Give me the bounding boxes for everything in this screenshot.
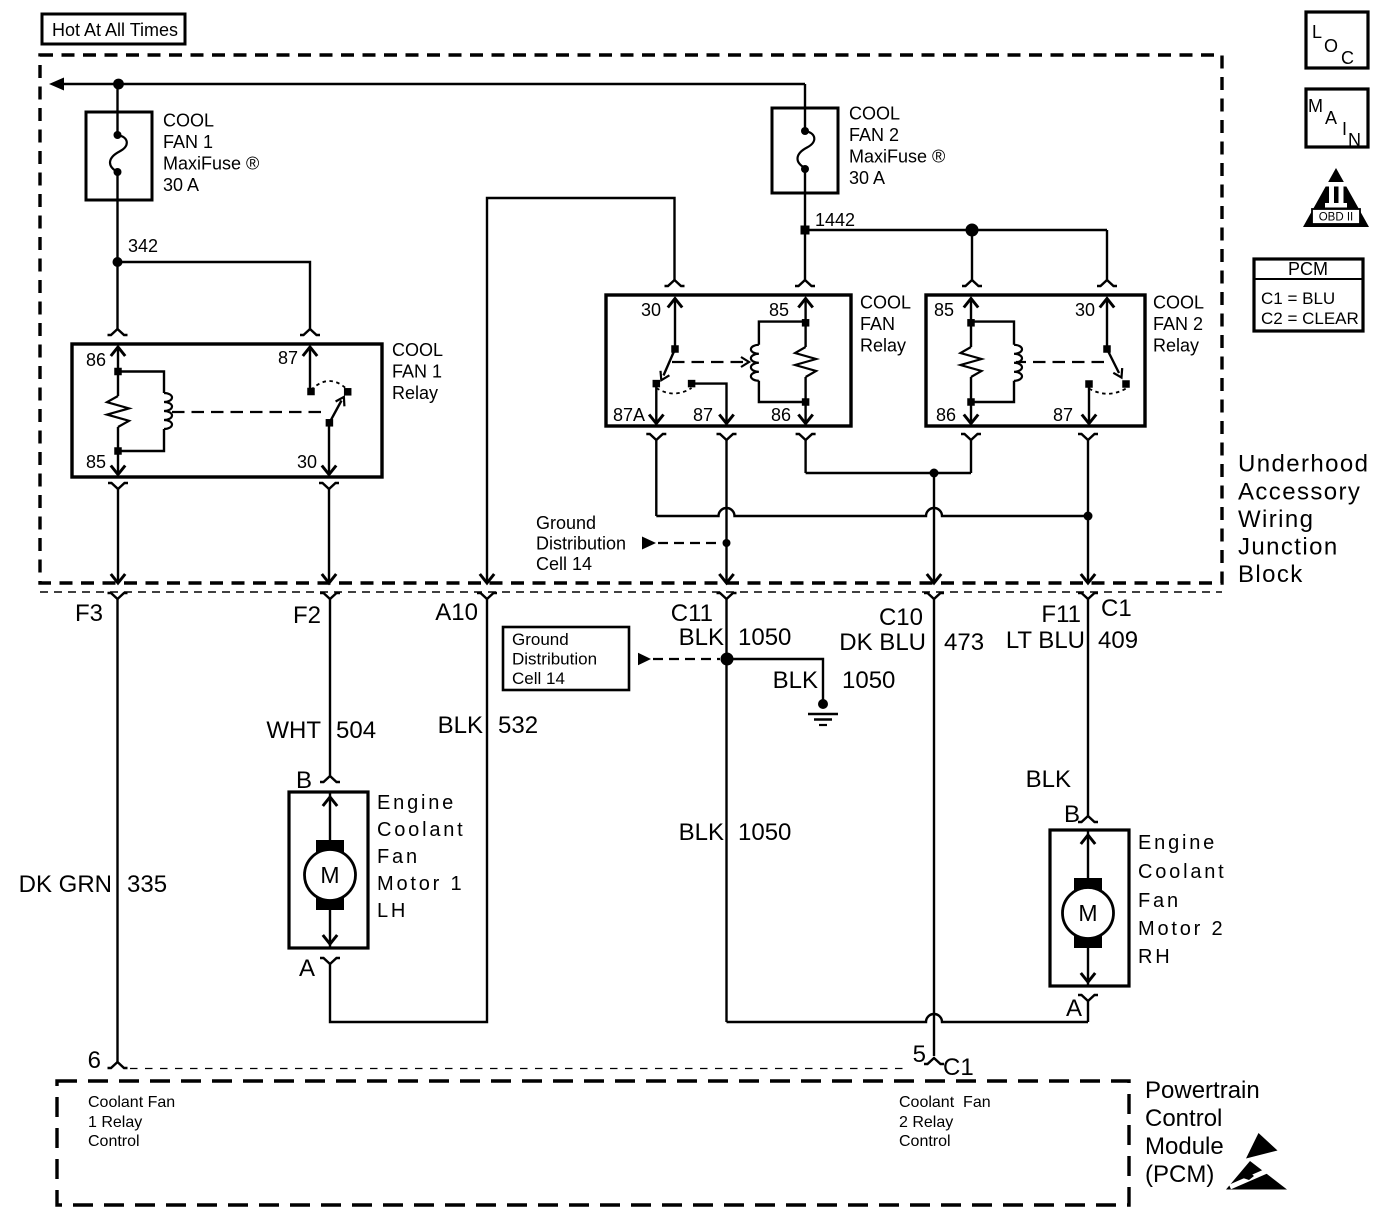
svg-text:30: 30 <box>1075 300 1095 320</box>
svg-text:BLK: BLK <box>773 667 818 694</box>
svg-text:C1 = BLU: C1 = BLU <box>1261 289 1335 308</box>
svg-text:86: 86 <box>936 405 956 425</box>
svg-text:M: M <box>1078 900 1097 926</box>
svg-text:Coolant: Coolant <box>1138 861 1227 883</box>
svg-text:Relay: Relay <box>392 383 438 403</box>
svg-text:FAN: FAN <box>860 314 895 334</box>
svg-text:DK BLU: DK BLU <box>839 629 926 656</box>
svg-text:C: C <box>1341 48 1354 68</box>
svg-text:C10: C10 <box>879 604 923 631</box>
svg-text:532: 532 <box>498 712 538 739</box>
svg-text:Distribution: Distribution <box>536 534 626 554</box>
svg-text:Motor 2: Motor 2 <box>1138 918 1225 940</box>
svg-text:Wiring: Wiring <box>1238 506 1314 533</box>
svg-text:Cell 14: Cell 14 <box>512 669 565 688</box>
svg-text:30 A: 30 A <box>163 175 199 195</box>
svg-text:Underhood: Underhood <box>1238 451 1369 478</box>
svg-text:FAN 2: FAN 2 <box>849 125 899 145</box>
svg-text:COOL: COOL <box>860 293 911 313</box>
svg-text:BLK: BLK <box>679 624 724 651</box>
svg-text:LH: LH <box>377 900 408 922</box>
svg-text:MaxiFuse ®: MaxiFuse ® <box>849 147 945 167</box>
svg-text:473: 473 <box>944 629 984 656</box>
svg-text:Distribution: Distribution <box>512 650 597 669</box>
svg-text:342: 342 <box>128 236 158 256</box>
svg-text:Ground: Ground <box>512 630 569 649</box>
svg-text:1 Relay: 1 Relay <box>88 1114 142 1131</box>
svg-text:Fan: Fan <box>1138 890 1181 912</box>
svg-text:FAN 1: FAN 1 <box>163 132 213 152</box>
svg-text:WHT: WHT <box>266 717 321 744</box>
svg-text:Coolant Fan: Coolant Fan <box>88 1094 175 1111</box>
svg-text:Ground: Ground <box>536 513 596 533</box>
svg-text:LT BLU: LT BLU <box>1006 627 1085 654</box>
svg-text:5: 5 <box>913 1041 926 1068</box>
svg-text:504: 504 <box>336 717 376 744</box>
svg-text:I: I <box>1342 119 1347 139</box>
svg-text:M: M <box>1308 96 1323 116</box>
svg-text:86: 86 <box>86 350 106 370</box>
svg-text:O: O <box>1324 36 1338 56</box>
svg-text:85: 85 <box>934 300 954 320</box>
svg-text:MaxiFuse ®: MaxiFuse ® <box>163 154 259 174</box>
svg-text:Cell 14: Cell 14 <box>536 554 592 574</box>
svg-text:Engine: Engine <box>377 792 456 814</box>
svg-text:F2: F2 <box>293 602 321 629</box>
svg-text:C2 = CLEAR: C2 = CLEAR <box>1261 309 1359 328</box>
svg-text:87: 87 <box>278 348 298 368</box>
svg-text:85: 85 <box>86 452 106 472</box>
svg-text:Fan: Fan <box>377 846 420 868</box>
svg-text:2 Relay: 2 Relay <box>899 1114 953 1131</box>
svg-text:409: 409 <box>1098 627 1138 654</box>
svg-text:A: A <box>1325 108 1337 128</box>
svg-text:A: A <box>299 955 315 982</box>
svg-text:A: A <box>1066 995 1082 1022</box>
svg-text:335: 335 <box>127 871 167 898</box>
svg-text:C1: C1 <box>943 1054 974 1081</box>
svg-text:COOL: COOL <box>1153 293 1204 313</box>
svg-text:30: 30 <box>641 300 661 320</box>
svg-text:Control: Control <box>1145 1105 1222 1132</box>
svg-text:Junction: Junction <box>1238 534 1339 561</box>
svg-text:FAN 1: FAN 1 <box>392 362 442 382</box>
svg-text:1050: 1050 <box>738 624 791 651</box>
svg-text:Control: Control <box>88 1133 140 1150</box>
svg-text:85: 85 <box>769 300 789 320</box>
svg-text:Control: Control <box>899 1133 951 1150</box>
svg-text:C11: C11 <box>671 600 713 627</box>
svg-text:PCM: PCM <box>1288 259 1328 279</box>
svg-text:1442: 1442 <box>815 210 855 230</box>
svg-text:C1: C1 <box>1101 595 1132 622</box>
svg-text:87A: 87A <box>613 405 645 425</box>
svg-text:Module: Module <box>1145 1133 1224 1160</box>
svg-text:Coolant: Coolant <box>377 819 466 841</box>
svg-text:Relay: Relay <box>1153 336 1199 356</box>
svg-text:COOL: COOL <box>392 340 443 360</box>
svg-text:30: 30 <box>297 452 317 472</box>
svg-text:1050: 1050 <box>842 667 895 694</box>
svg-text:(PCM): (PCM) <box>1145 1161 1214 1188</box>
svg-text:87: 87 <box>693 405 713 425</box>
svg-text:6: 6 <box>88 1047 101 1074</box>
svg-text:Hot At All Times: Hot At All Times <box>52 20 178 40</box>
svg-text:1050: 1050 <box>738 819 791 846</box>
svg-text:A10: A10 <box>435 599 478 626</box>
svg-text:F11: F11 <box>1041 601 1081 628</box>
svg-text:Relay: Relay <box>860 336 906 356</box>
svg-text:L: L <box>1312 22 1322 42</box>
svg-text:30 A: 30 A <box>849 168 885 188</box>
svg-text:N: N <box>1348 130 1361 150</box>
svg-text:F3: F3 <box>75 600 103 627</box>
svg-text:OBD II: OBD II <box>1319 212 1354 224</box>
svg-text:B: B <box>296 767 312 794</box>
svg-text:FAN 2: FAN 2 <box>1153 314 1203 334</box>
svg-text:86: 86 <box>771 405 791 425</box>
svg-text:Motor 1: Motor 1 <box>377 873 464 895</box>
svg-text:BLK: BLK <box>1026 766 1071 793</box>
svg-text:Block: Block <box>1238 561 1304 588</box>
svg-text:Coolant Fan: Coolant Fan <box>899 1094 991 1111</box>
svg-text:DK GRN: DK GRN <box>19 871 112 898</box>
svg-text:Accessory: Accessory <box>1238 478 1361 505</box>
svg-text:BLK: BLK <box>679 819 724 846</box>
svg-text:COOL: COOL <box>163 111 214 131</box>
svg-text:RH: RH <box>1138 946 1173 968</box>
svg-text:BLK: BLK <box>438 712 483 739</box>
svg-text:Powertrain: Powertrain <box>1145 1077 1260 1104</box>
svg-text:Engine: Engine <box>1138 832 1217 854</box>
svg-text:87: 87 <box>1053 405 1073 425</box>
svg-text:B: B <box>1064 801 1080 828</box>
svg-text:COOL: COOL <box>849 104 900 124</box>
svg-text:M: M <box>320 862 339 888</box>
